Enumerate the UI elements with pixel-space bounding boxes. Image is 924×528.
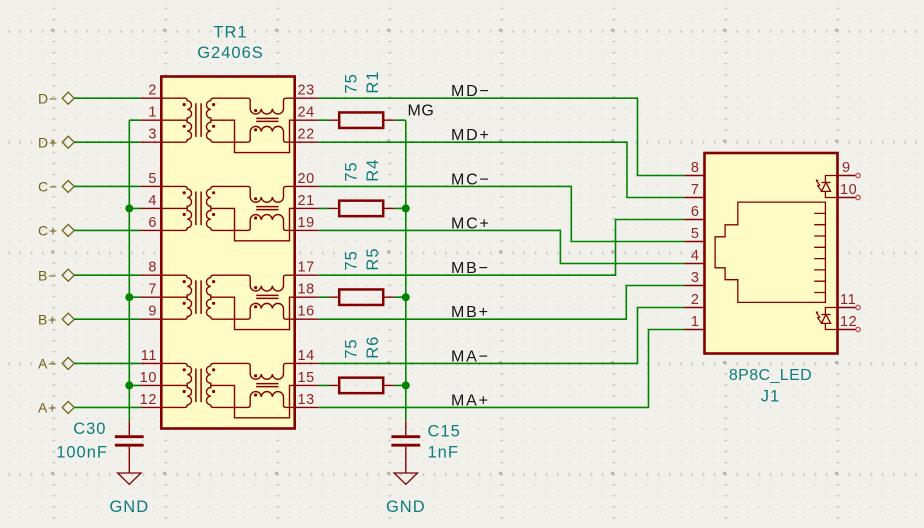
svg-text:5: 5 [148, 171, 157, 187]
resistor R5 75 ohm [329, 289, 395, 305]
svg-text:C−: C− [38, 179, 58, 195]
connector J1 pin numbers 11,12 [840, 292, 857, 330]
wire TR1 to resistor R6 and to MG bus [319, 384, 406, 386]
svg-text:4: 4 [148, 193, 157, 209]
svg-text:R1: R1 [364, 71, 382, 94]
hierarchical label C- [38, 179, 74, 195]
svg-text:12: 12 [140, 392, 157, 408]
resistor R1 75 ohm [329, 112, 395, 128]
wire TR1 to resistor R5 and to MG bus [319, 296, 406, 298]
connector J1 RJ45 jack drawing [715, 202, 825, 302]
svg-text:100nF: 100nF [56, 444, 108, 462]
svg-text:9: 9 [148, 304, 157, 320]
TR1 unit A right pin numbers 14,15,13 [298, 348, 315, 408]
svg-text:R4: R4 [364, 159, 382, 182]
resistor R5 reference [364, 248, 382, 271]
svg-text:A−: A− [38, 356, 57, 372]
svg-text:B−: B− [38, 268, 57, 284]
connector J1 pin numbers 9,10 [840, 160, 857, 198]
resistor R5 value 75 [343, 250, 361, 270]
svg-text:75: 75 [343, 338, 361, 358]
resistor R1 value 75 [343, 73, 361, 93]
svg-text:6: 6 [691, 204, 700, 220]
svg-text:MA−: MA− [451, 348, 490, 365]
svg-text:C+: C+ [38, 223, 58, 239]
wire from label A- to TR1 [74, 362, 140, 364]
svg-text:7: 7 [148, 282, 157, 298]
svg-text:10: 10 [140, 370, 157, 386]
svg-text:C30: C30 [73, 420, 106, 438]
TR1 unit D left pin numbers 2,1,3 [148, 83, 157, 143]
transformer TR1 unit B (isolation transformer + common-mode choke) [141, 275, 319, 329]
hierarchical label A- [38, 356, 74, 372]
wire from label D+ to TR1 [74, 141, 140, 143]
junction dots on MG bus [402, 204, 410, 389]
svg-text:11: 11 [141, 348, 157, 364]
wire net MA- from TR1 to J1 [319, 308, 685, 364]
wire net MC- from TR1 to J1 [319, 186, 685, 241]
junction dots on center-tap bus [125, 204, 133, 389]
svg-text:12: 12 [840, 314, 857, 330]
svg-text:8: 8 [691, 160, 700, 176]
hierarchical label B- [38, 268, 74, 284]
wire TR1 to resistor R1 and to MG bus [319, 119, 406, 121]
connector J1 right pins 9,10 (LED) [838, 173, 861, 199]
svg-text:16: 16 [298, 304, 315, 320]
svg-text:7: 7 [691, 182, 700, 198]
svg-text:19: 19 [298, 215, 315, 231]
svg-text:MD+: MD+ [451, 127, 491, 144]
wire from label B- to TR1 [74, 274, 140, 276]
svg-text:3: 3 [691, 270, 700, 286]
net label MD- [451, 83, 491, 100]
TR1 unit D right pin numbers 23,24,22 [298, 83, 315, 143]
connector J1 right pins 11,12 (LED) [838, 305, 861, 331]
transformer TR1 reference label [213, 24, 247, 42]
TR1 unit B left pin numbers 8,7,9 [148, 260, 157, 320]
wire from label D- to TR1 [74, 97, 140, 99]
connector J1 left pin numbers 8..1 [691, 160, 700, 330]
net label MA- [451, 348, 490, 365]
hierarchical label B+ [38, 312, 74, 328]
svg-text:MB+: MB+ [451, 304, 490, 321]
connector J1 value 8P8C_LED [729, 367, 812, 384]
svg-text:22: 22 [298, 127, 315, 143]
svg-text:8P8C_LED: 8P8C_LED [729, 367, 812, 384]
svg-text:1nF: 1nF [428, 444, 459, 462]
svg-text:C15: C15 [428, 423, 461, 441]
svg-text:75: 75 [343, 250, 361, 270]
svg-text:10: 10 [840, 182, 857, 198]
power symbol GND (right) label [386, 498, 426, 516]
wire from label A+ to TR1 [74, 406, 140, 408]
hierarchical label D- [38, 91, 74, 107]
wire net MD+ from TR1 to J1 [319, 142, 685, 197]
svg-text:MC−: MC− [451, 171, 491, 188]
resistor R4 value 75 [343, 161, 361, 181]
capacitor C30 reference [73, 420, 106, 438]
resistor R6 value 75 [343, 338, 361, 358]
svg-text:GND: GND [109, 498, 149, 516]
hierarchical label C+ [38, 223, 74, 239]
net label MB- [451, 260, 490, 277]
svg-text:2: 2 [691, 292, 700, 308]
svg-text:11: 11 [840, 292, 856, 308]
svg-text:1: 1 [691, 314, 700, 330]
wire net MB+ from TR1 to J1 [319, 286, 685, 320]
svg-text:75: 75 [343, 161, 361, 181]
resistor R4 reference [364, 159, 382, 182]
resistor R1 reference [364, 71, 382, 94]
svg-text:4: 4 [691, 248, 700, 264]
svg-text:17: 17 [298, 260, 315, 276]
svg-text:GND: GND [386, 498, 426, 516]
capacitor C15 reference [428, 423, 461, 441]
resistor R6 reference [364, 336, 382, 359]
wire: primary center-tap bus (pins 1,4,7,10) down to C30 [129, 120, 140, 420]
wire from label B+ to TR1 [74, 318, 140, 320]
svg-text:MC+: MC+ [451, 215, 491, 232]
svg-text:15: 15 [298, 370, 315, 386]
svg-text:5: 5 [691, 226, 700, 242]
transformer TR1 unit A (isolation transformer + common-mode choke) [141, 363, 319, 417]
wire net MD- from TR1 to J1 [319, 98, 685, 175]
svg-text:14: 14 [298, 348, 315, 364]
net label MG [408, 102, 435, 119]
wire net MC+ from TR1 to J1 [319, 230, 685, 263]
svg-text:2: 2 [148, 83, 157, 99]
connector J1 reference [761, 387, 780, 405]
transformer TR1 value G2406S [197, 44, 264, 62]
svg-text:A+: A+ [38, 400, 57, 416]
transformer TR1 unit C (isolation transformer + common-mode choke) [141, 186, 319, 240]
svg-text:6: 6 [148, 215, 157, 231]
svg-text:24: 24 [298, 105, 315, 121]
connector J1 left pins 8..1 [685, 176, 705, 330]
svg-text:B+: B+ [38, 312, 57, 328]
capacitor C30 value 100nF [56, 444, 108, 462]
capacitor C15 value 1nF [428, 444, 459, 462]
svg-text:20: 20 [298, 171, 315, 187]
wire: MG net bus (resistor commons) down to C15 [405, 120, 407, 420]
net label MA+ [451, 392, 490, 409]
TR1 unit C left pin numbers 5,4,6 [148, 171, 157, 231]
hierarchical label D+ [38, 135, 74, 151]
connector J1 body [705, 153, 838, 354]
LED indicator top (pins 9-10) [816, 176, 838, 198]
net label MC+ [451, 215, 491, 232]
svg-text:18: 18 [298, 282, 315, 298]
net label MD+ [451, 127, 491, 144]
svg-text:R5: R5 [364, 248, 382, 271]
TR1 unit B right pin numbers 17,18,16 [298, 260, 315, 320]
svg-text:MA+: MA+ [451, 392, 490, 409]
resistor R6 75 ohm [329, 378, 395, 394]
LED indicator bottom (pins 11-12) [816, 308, 838, 330]
capacitor C15 with GND symbol [391, 420, 420, 484]
transformer TR1 body [161, 77, 294, 429]
power symbol GND (left) label [109, 498, 149, 516]
svg-text:1: 1 [148, 105, 157, 121]
svg-text:TR1: TR1 [213, 24, 247, 42]
capacitor C30 with GND symbol [115, 420, 144, 484]
svg-text:9: 9 [842, 160, 851, 176]
net label MC- [451, 171, 491, 188]
svg-text:D−: D− [38, 91, 58, 107]
svg-text:D+: D+ [38, 135, 58, 151]
hierarchical label A+ [38, 400, 74, 416]
TR1 unit A left pin numbers 11,10,12 [140, 348, 157, 408]
svg-text:G2406S: G2406S [197, 44, 264, 62]
svg-text:75: 75 [343, 73, 361, 93]
svg-text:21: 21 [298, 193, 315, 209]
resistor R4 75 ohm [329, 201, 395, 217]
wire TR1 to resistor R4 and to MG bus [319, 207, 406, 209]
TR1 unit C right pin numbers 20,21,19 [298, 171, 315, 231]
svg-text:8: 8 [148, 260, 157, 276]
svg-text:MB−: MB− [451, 260, 490, 277]
svg-text:23: 23 [298, 83, 315, 99]
svg-text:J1: J1 [761, 387, 780, 405]
svg-text:3: 3 [148, 127, 157, 143]
wire from label C+ to TR1 [74, 229, 140, 231]
svg-text:R6: R6 [364, 336, 382, 359]
transformer TR1 unit D (isolation transformer + common-mode choke) [141, 98, 319, 152]
svg-text:MG: MG [408, 102, 435, 119]
svg-text:13: 13 [298, 392, 315, 408]
net label MB+ [451, 304, 490, 321]
svg-text:MD−: MD− [451, 83, 491, 100]
wire from label C- to TR1 [74, 185, 140, 187]
wire net MA+ from TR1 to J1 [319, 330, 685, 408]
wire net MB- from TR1 to J1 [319, 220, 685, 276]
